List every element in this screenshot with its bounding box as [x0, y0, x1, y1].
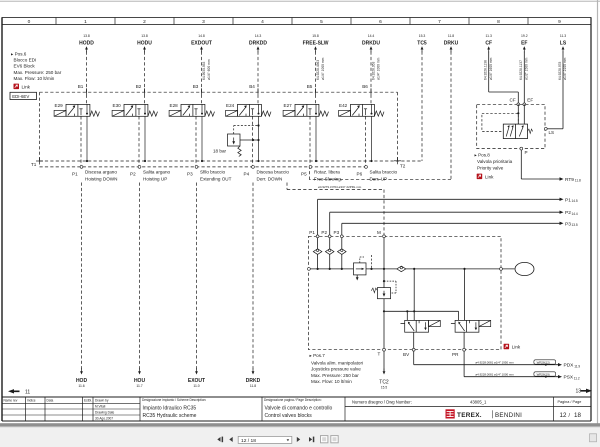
- svg-text:ø1/4" 2100 mm: ø1/4" 2100 mm: [563, 57, 567, 80]
- svg-text:Drawn by: Drawn by: [95, 398, 109, 402]
- svg-text:11.2: 11.2: [574, 376, 580, 380]
- svg-text:PR: PR: [452, 352, 459, 357]
- svg-text:11.6: 11.6: [78, 384, 84, 388]
- svg-text:WR28(12): WR28(12): [537, 360, 550, 364]
- svg-text:P6: P6: [357, 172, 363, 177]
- svg-text:Link: Link: [485, 174, 494, 179]
- svg-text:LS: LS: [549, 130, 555, 135]
- svg-text:Rotaz. libera: Rotaz. libera: [314, 169, 340, 174]
- svg-text:E28: E28: [170, 103, 179, 108]
- svg-text:13.8: 13.8: [141, 34, 148, 38]
- svg-text:64.9228.953: 64.9228.953: [371, 61, 375, 80]
- svg-text:7: 7: [438, 19, 441, 25]
- svg-text:Discesa braccio: Discesa braccio: [257, 169, 290, 174]
- svg-text:Max. Pressure: 250 bar: Max. Pressure: 250 bar: [14, 70, 62, 75]
- svg-text:19.2: 19.2: [521, 34, 528, 38]
- svg-text:Salita braccio: Salita braccio: [370, 169, 398, 174]
- svg-text:ø1/4" 1000 mm: ø1/4" 1000 mm: [321, 57, 325, 80]
- svg-text:DRKDU: DRKDU: [362, 40, 380, 46]
- svg-text:Discesa argano: Discesa argano: [85, 169, 117, 174]
- svg-text:Indice: Indice: [27, 398, 36, 402]
- svg-text:P5: P5: [301, 172, 307, 177]
- svg-text:P2: P2: [565, 210, 571, 216]
- svg-text:Impianto Idraulico RC35: Impianto Idraulico RC35: [143, 405, 197, 411]
- svg-text:BENDINI: BENDINI: [495, 412, 522, 419]
- svg-text:PDX: PDX: [564, 363, 575, 369]
- svg-text:Estbl.: Estbl.: [84, 398, 92, 402]
- svg-text:▸ Pos.6: ▸ Pos.6: [11, 52, 27, 57]
- svg-text:1: 1: [84, 19, 87, 25]
- svg-text:Name rev: Name rev: [4, 398, 18, 402]
- svg-text:Joysticks pressure valve: Joysticks pressure valve: [311, 367, 361, 372]
- svg-text:ø1/4" 1600 mm: ø1/4" 1600 mm: [489, 57, 493, 80]
- svg-text:LS: LS: [560, 40, 567, 46]
- svg-text:EXOUT: EXOUT: [188, 378, 205, 384]
- svg-text:DRKDD: DRKDD: [249, 40, 267, 46]
- svg-text:HODD: HODD: [79, 40, 94, 46]
- svg-text:14.5: 14.5: [572, 199, 578, 203]
- svg-text:E30: E30: [113, 103, 122, 108]
- svg-text:64.9228.978: 64.9228.978: [558, 61, 562, 80]
- svg-text:64.9228.1138: 64.9228.1138: [484, 60, 488, 80]
- svg-text:Designazione pagina / Page Des: Designazione pagina / Page Description:: [264, 398, 322, 402]
- svg-text:▸ Pos.8: ▸ Pos.8: [475, 153, 491, 158]
- svg-text:Link: Link: [22, 84, 31, 89]
- svg-text:HOU: HOU: [134, 378, 146, 384]
- svg-text:Control valves blocks: Control valves blocks: [265, 413, 313, 419]
- svg-text:14.4: 14.4: [368, 34, 375, 38]
- svg-text:P3: P3: [565, 221, 571, 227]
- svg-text:HOD: HOD: [76, 378, 88, 384]
- svg-text:64.9035.953: 64.9035.953: [202, 61, 206, 80]
- svg-text:2: 2: [143, 19, 146, 25]
- svg-text:13.5: 13.5: [572, 223, 578, 227]
- svg-text:M.Vitali: M.Vitali: [95, 405, 106, 409]
- svg-text:15.8: 15.8: [312, 34, 319, 38]
- svg-text:P2: P2: [130, 172, 136, 177]
- svg-text:Data: Data: [47, 398, 54, 402]
- svg-text:P4: P4: [244, 172, 250, 177]
- svg-text:TC5: TC5: [417, 40, 427, 46]
- svg-text:11.0: 11.0: [193, 384, 199, 388]
- svg-text:E29: E29: [55, 103, 64, 108]
- svg-text:P3: P3: [334, 230, 340, 235]
- svg-text:ø4.9279.3 P64 ø3/4" 22PRL mm: ø4.9279.3 P64 ø3/4" 22PRL mm: [318, 185, 362, 189]
- svg-text:▸ Pos.7: ▸ Pos.7: [310, 353, 326, 358]
- svg-text:B3: B3: [193, 84, 199, 89]
- svg-text:4: 4: [261, 19, 264, 25]
- svg-text:T1: T1: [31, 162, 37, 167]
- svg-text:ø1/2" 1500 mm: ø1/2" 1500 mm: [524, 57, 528, 80]
- svg-text:Priority valve: Priority valve: [477, 165, 504, 170]
- svg-text:Blocco EDI: Blocco EDI: [14, 57, 37, 62]
- svg-text:6: 6: [379, 19, 382, 25]
- svg-text:Valvola prioritaria: Valvola prioritaria: [477, 159, 513, 164]
- svg-text:B1: B1: [78, 84, 84, 89]
- svg-text:T: T: [378, 352, 381, 357]
- svg-text:T2: T2: [400, 164, 406, 169]
- svg-text:Numero disegno / Dwg Number:: Numero disegno / Dwg Number:: [352, 399, 412, 404]
- svg-text:Derr. DOWN: Derr. DOWN: [257, 176, 283, 181]
- svg-text:EV6 Block: EV6 Block: [14, 63, 36, 68]
- svg-text:Pagina / Page: Pagina / Page: [558, 400, 582, 404]
- svg-text:ø1/4" 1000 mm: ø1/4" 1000 mm: [377, 57, 381, 80]
- svg-text:14.4: 14.4: [572, 212, 578, 216]
- svg-text:EF: EF: [521, 40, 527, 46]
- svg-text:9: 9: [558, 19, 561, 25]
- svg-text:B6: B6: [362, 84, 368, 89]
- svg-text:P1: P1: [565, 197, 571, 203]
- svg-text:Designazione impianto / Scheme: Designazione impianto / Scheme Descripti…: [142, 398, 206, 402]
- svg-text:HODU: HODU: [137, 40, 152, 46]
- svg-text:P2: P2: [321, 230, 327, 235]
- svg-text:Drawing Date: Drawing Date: [95, 411, 115, 415]
- svg-text:3: 3: [202, 19, 205, 25]
- svg-text:0: 0: [28, 19, 31, 25]
- svg-text:E42: E42: [339, 103, 348, 108]
- svg-text:Link: Link: [512, 345, 521, 350]
- svg-text:15.3: 15.3: [419, 34, 426, 38]
- svg-text:14.8: 14.8: [198, 34, 205, 38]
- svg-text:EF: EF: [527, 98, 533, 103]
- svg-text:TEREX.: TEREX.: [457, 412, 482, 419]
- svg-text:BV: BV: [403, 352, 410, 357]
- svg-text:EDI-6EV: EDI-6EV: [12, 94, 29, 99]
- svg-text:18 bar: 18 bar: [213, 148, 226, 153]
- svg-text:M: M: [377, 230, 381, 235]
- svg-text:B4: B4: [249, 84, 255, 89]
- svg-text:RC35 Hydraulic scheme: RC35 Hydraulic scheme: [143, 413, 197, 419]
- svg-text:64.9228.4563: 64.9228.4563: [316, 60, 320, 80]
- svg-text:64.9228.1137: 64.9228.1137: [519, 60, 523, 80]
- svg-text:FREE-SLW: FREE-SLW: [303, 40, 329, 46]
- svg-text:E27: E27: [284, 103, 293, 108]
- svg-text:DRKU: DRKU: [444, 40, 459, 46]
- svg-text:Max. Pressure: 250 bar: Max. Pressure: 250 bar: [311, 373, 359, 378]
- svg-text:WR28(19): WR28(19): [537, 372, 550, 376]
- svg-text:PSX: PSX: [564, 375, 574, 381]
- svg-text:Hoisting DOWN: Hoisting DOWN: [85, 176, 117, 181]
- svg-text:11.3: 11.3: [560, 34, 566, 38]
- svg-text:8: 8: [497, 19, 500, 25]
- svg-text:B5: B5: [307, 84, 313, 89]
- svg-text:Max. Flow: 10 lt/min: Max. Flow: 10 lt/min: [14, 76, 55, 81]
- svg-text:ø4.9228.0081 ø1/4" 1000 mm: ø4.9228.0081 ø1/4" 1000 mm: [475, 373, 514, 377]
- svg-text:P1: P1: [72, 172, 78, 177]
- svg-text:12: 12: [560, 412, 567, 419]
- svg-text:P3: P3: [187, 172, 193, 177]
- svg-text:ø4.9228.0081 ø1/4" 1950 mm: ø4.9228.0081 ø1/4" 1950 mm: [475, 361, 514, 365]
- svg-text:P: P: [525, 150, 528, 155]
- svg-text:Valvola alim. manipolatori: Valvola alim. manipolatori: [311, 360, 363, 365]
- svg-text:Extending OUT: Extending OUT: [200, 176, 232, 181]
- svg-text:DRKD: DRKD: [246, 378, 261, 384]
- svg-text:12 / 18: 12 / 18: [241, 438, 256, 444]
- svg-text:13: 13: [575, 389, 581, 395]
- svg-text:CF: CF: [485, 40, 492, 46]
- svg-text:ø1/4" 600 mm: ø1/4" 600 mm: [207, 59, 211, 80]
- svg-text:30.Ago.2007: 30.Ago.2007: [95, 417, 113, 421]
- svg-text:13.8: 13.8: [83, 34, 90, 38]
- svg-text:11.3: 11.3: [486, 34, 492, 38]
- svg-text:5: 5: [320, 19, 323, 25]
- svg-text:E24: E24: [226, 103, 235, 108]
- svg-text:Salita argano: Salita argano: [143, 169, 171, 174]
- svg-text:Free Slewing.: Free Slewing.: [314, 176, 342, 181]
- svg-text:11.8: 11.8: [575, 179, 581, 183]
- svg-text:11.8: 11.8: [448, 34, 454, 38]
- svg-text:18: 18: [574, 412, 581, 419]
- svg-text:Hoisting UP: Hoisting UP: [143, 176, 167, 181]
- svg-text:11: 11: [25, 389, 30, 395]
- svg-text:RT9: RT9: [565, 177, 574, 183]
- svg-text:Max. Flow: 10 lt/min: Max. Flow: 10 lt/min: [311, 379, 352, 384]
- svg-text:Derr. UP: Derr. UP: [370, 176, 388, 181]
- svg-text:P1: P1: [309, 230, 315, 235]
- svg-text:11.8: 11.8: [250, 384, 256, 388]
- svg-text:Sfilo braccio: Sfilo braccio: [200, 169, 225, 174]
- svg-text:43805_1: 43805_1: [470, 399, 487, 404]
- svg-text:Valvole di comando e controllo: Valvole di comando e controllo: [265, 405, 333, 411]
- svg-text:CF: CF: [510, 98, 516, 103]
- svg-text:B2: B2: [136, 84, 142, 89]
- svg-text:11.9: 11.9: [574, 364, 580, 368]
- svg-text:14.3: 14.3: [255, 34, 262, 38]
- svg-text:11.7: 11.7: [136, 384, 142, 388]
- svg-text:15.5: 15.5: [381, 385, 387, 389]
- svg-text:EXDOUT: EXDOUT: [191, 40, 212, 46]
